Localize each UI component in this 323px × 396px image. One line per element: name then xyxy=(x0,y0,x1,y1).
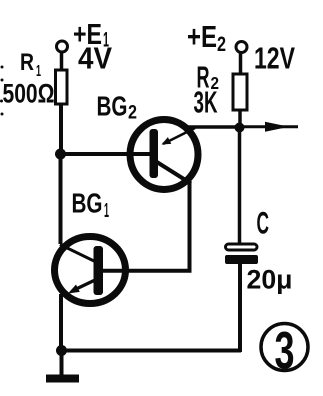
svg-text:BG: BG xyxy=(72,188,103,219)
svg-text:500Ω: 500Ω xyxy=(3,78,55,108)
node A junction dot xyxy=(55,149,66,160)
output line xyxy=(243,125,298,128)
wire BG1 emitter to ground node xyxy=(59,294,63,352)
svg-text:20μ: 20μ xyxy=(247,265,293,295)
svg-text:BG: BG xyxy=(97,91,128,122)
ground symbol xyxy=(46,375,79,383)
svg-text:C: C xyxy=(257,205,270,241)
svg-text:3K: 3K xyxy=(194,85,218,120)
svg-text:4V: 4V xyxy=(78,42,113,76)
transistor BG2 xyxy=(130,120,198,190)
scan noise dots xyxy=(1,66,4,69)
wire node A down to BG1 collector xyxy=(59,154,63,244)
wire R1 to node A xyxy=(59,104,63,152)
svg-text:R: R xyxy=(20,49,34,76)
bottom wire xyxy=(61,349,241,353)
output arrowhead xyxy=(265,122,289,132)
node B junction dot xyxy=(235,123,245,133)
svg-text:12V: 12V xyxy=(254,41,295,76)
capacitor C top plate xyxy=(226,244,258,250)
terminal +E2 xyxy=(236,42,247,53)
wire terminal to R2 xyxy=(239,52,243,74)
transistor BG1 xyxy=(55,237,126,304)
terminal +E1 xyxy=(57,41,68,52)
resistor R1 xyxy=(56,70,68,104)
ground node junction dot xyxy=(56,345,67,356)
svg-text:2: 2 xyxy=(128,103,137,124)
wire BG2 collector down xyxy=(188,182,192,273)
svg-text:3: 3 xyxy=(275,321,295,380)
wire node B to capacitor xyxy=(238,127,242,243)
ground stub xyxy=(60,352,64,375)
capacitor C bottom plate xyxy=(225,255,258,264)
figure number circle 3 xyxy=(261,321,308,380)
svg-text:+E: +E xyxy=(187,19,217,54)
svg-text:2: 2 xyxy=(217,33,226,56)
wire capacitor to bottom wire xyxy=(238,263,242,352)
wire BG2 emitter to node B xyxy=(187,125,240,129)
resistor R2 xyxy=(233,74,247,110)
wire BG2 collector to BG1 base xyxy=(98,269,192,273)
svg-text:1: 1 xyxy=(104,200,109,222)
wire node A to BG2 base xyxy=(60,152,150,156)
wire terminal to R1 xyxy=(60,52,64,70)
wire R2 to node B xyxy=(238,110,242,130)
